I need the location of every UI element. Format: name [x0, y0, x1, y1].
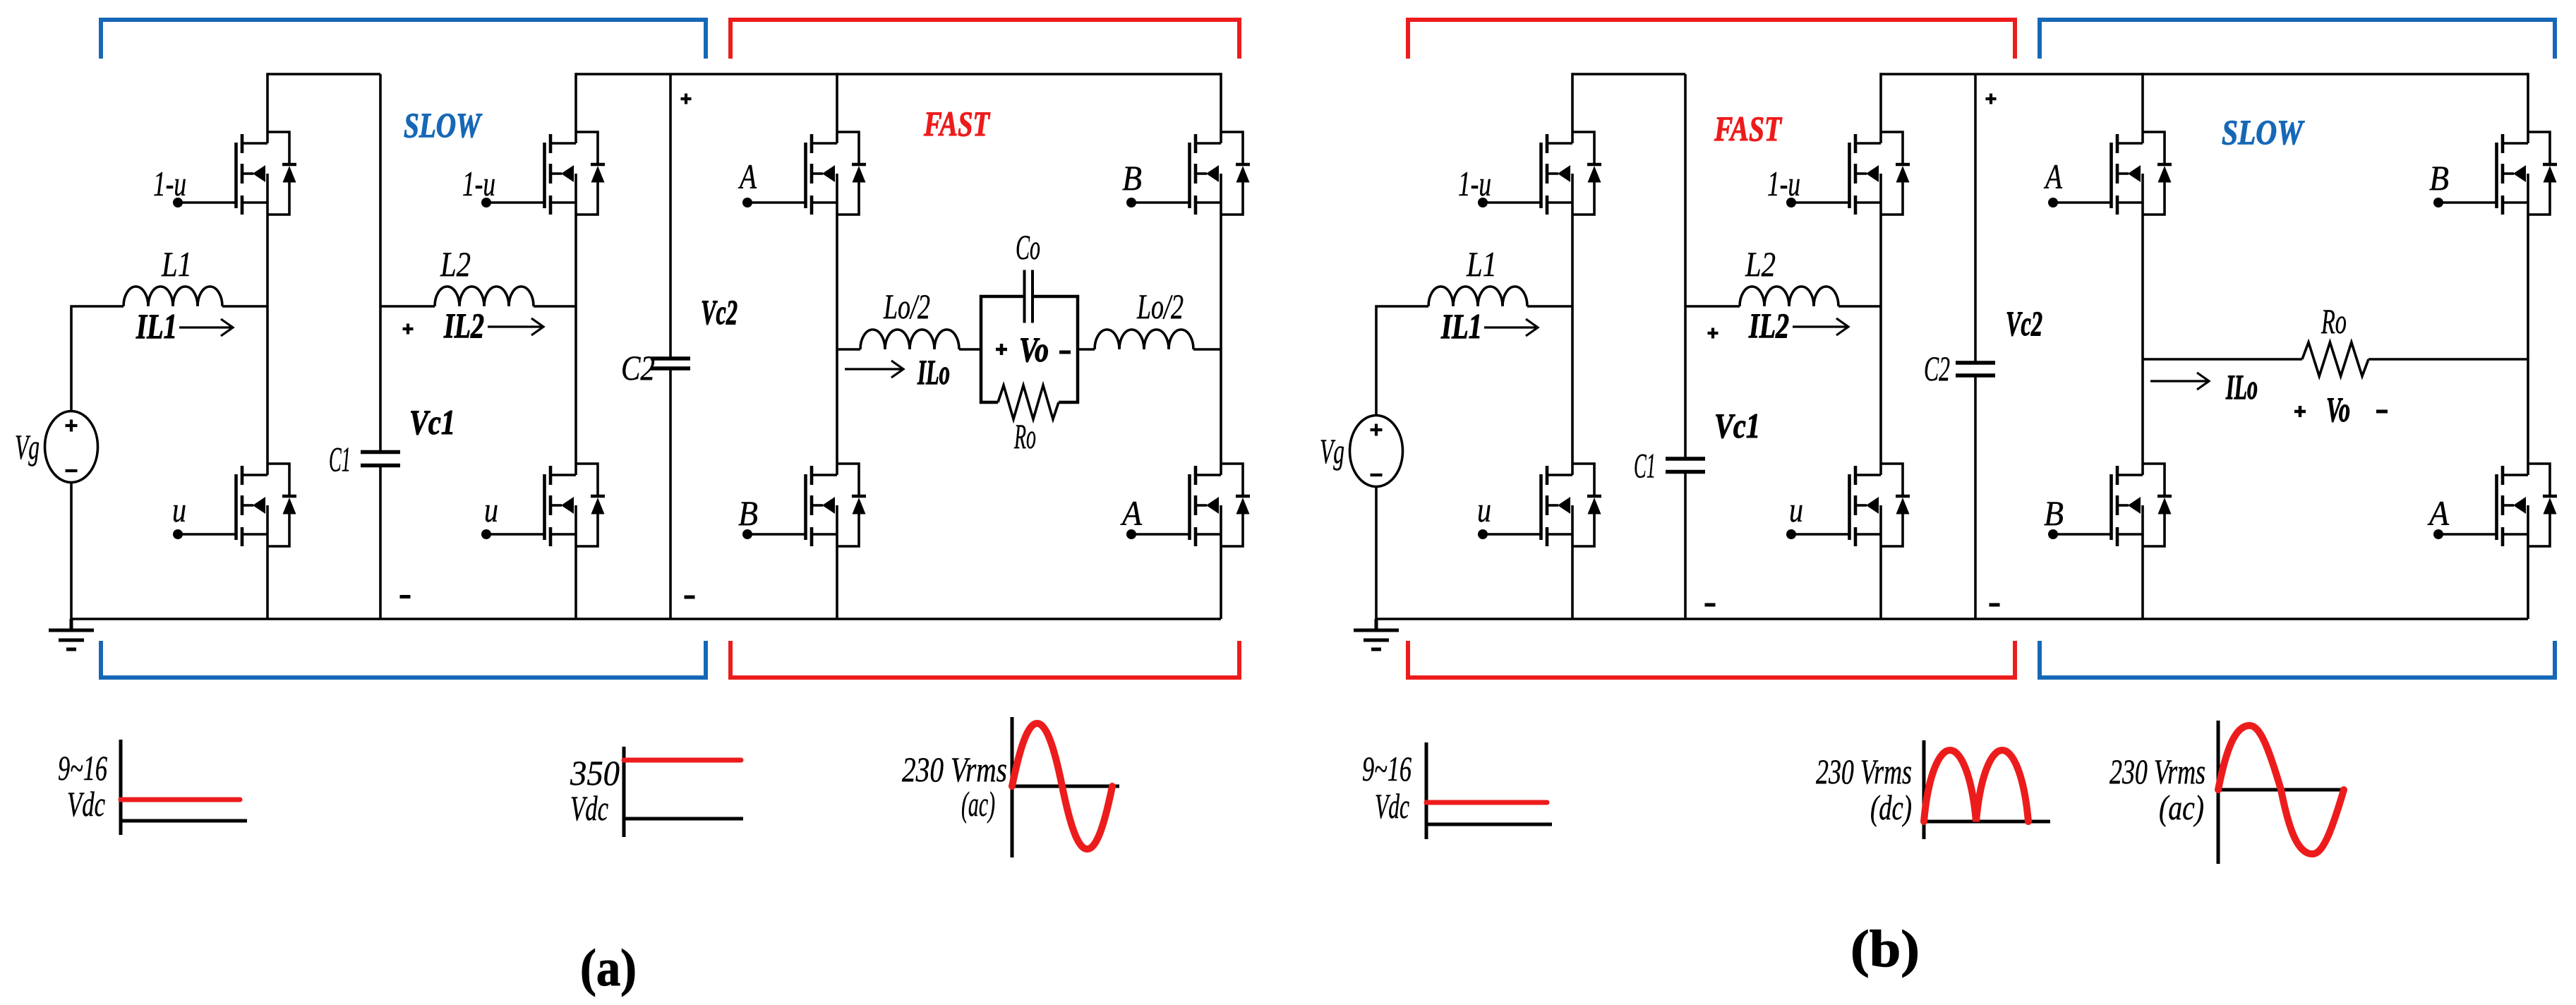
svg-text:Vdc: Vdc — [67, 784, 105, 824]
wire C2 branch bottom (b) — [1974, 378, 1977, 620]
svg-text:B: B — [2429, 158, 2449, 198]
svg-text:1-u: 1-u — [153, 164, 186, 203]
wire top rail A (a): leg1 to C1 — [267, 73, 380, 76]
polarity plus Vc1 (b) — [1708, 328, 1719, 339]
svg-text:Vc1: Vc1 — [1714, 406, 1760, 445]
wire L1 to leg1 (b) — [1527, 305, 1572, 308]
transistor S1 (1-u) fig b leg1 high-side — [1478, 132, 1601, 215]
waveform red rectified sine (b bus) — [1924, 750, 2028, 822]
wire leg1 mid (a) — [266, 215, 269, 464]
inductor Lo/2 right (a) — [1095, 330, 1193, 349]
transistor B fig b bridge right high-side — [2433, 132, 2557, 215]
polarity plus Vc1 (a) — [403, 324, 414, 335]
wire H-bridge left leg bottom (b) — [2141, 546, 2144, 619]
polarity plus Vo (b) — [2294, 406, 2306, 417]
wire H-bridge right leg bottom (b) — [2527, 546, 2529, 619]
svg-text:9~16: 9~16 — [1362, 749, 1412, 788]
svg-text:IL1: IL1 — [1440, 306, 1482, 346]
svg-text:Vdc: Vdc — [1375, 786, 1409, 826]
wire Ro to bridge right leg (b): node B — [2369, 358, 2528, 361]
polarity minus Vo (a) — [1059, 351, 1071, 354]
svg-text:L2: L2 — [440, 244, 471, 284]
current arrow ILo (a) — [845, 361, 903, 378]
waveform red dc line (a input) — [121, 798, 240, 802]
waveform axes 230Vrms ac (a) — [1012, 717, 1119, 857]
wire Vg to L1 (a) — [71, 306, 124, 411]
waveform red sine (a output) — [1012, 723, 1112, 849]
svg-text:Vdc: Vdc — [570, 788, 608, 828]
wire H-bridge right leg mid (b): node B — [2527, 215, 2529, 464]
svg-text:IL2: IL2 — [443, 306, 484, 345]
transistor S3 (1-u) fig b leg2 high-side — [1786, 132, 1910, 215]
polarity minus Vo (b) — [2376, 410, 2388, 414]
wire C2 branch top (a) — [669, 74, 672, 357]
svg-text:FAST: FAST — [1714, 109, 1783, 148]
wire bridge output left (b): node A to Ro — [2143, 358, 2302, 361]
transistor S1 (1-u) fig a leg1 high-side — [173, 132, 296, 215]
wire leg1 bottom (a) — [266, 546, 269, 619]
polarity plus Vo (a) — [996, 344, 1007, 355]
svg-text:A: A — [738, 157, 757, 196]
transistor S4 (u) fig b leg2 low-side — [1786, 464, 1910, 546]
svg-text:Lo/2: Lo/2 — [883, 287, 930, 326]
current arrow IL2 (a) — [488, 318, 543, 335]
polarity plus Vc2 (b) — [1986, 94, 1997, 104]
current arrow IL1 (a) — [179, 319, 233, 336]
wire leg1 bottom (b) — [1571, 546, 1574, 619]
wire leg1 top (b) — [1571, 73, 1574, 132]
svg-text:Vo: Vo — [1019, 330, 1049, 369]
capacitor C1 (b) — [1666, 457, 1705, 461]
svg-text:(ac): (ac) — [961, 784, 995, 824]
wire load box to right Lo/2 (a) — [1078, 348, 1095, 351]
svg-text:B: B — [2044, 493, 2064, 533]
current arrow ILo (b) — [2150, 373, 2209, 390]
polarity minus Vc2 (a) — [685, 596, 695, 599]
svg-text:1-u: 1-u — [1458, 164, 1491, 203]
wire leg2 bottom (a) — [574, 546, 577, 619]
wire L2 to leg2 (b) — [1838, 305, 1881, 308]
wire C2 branch bottom (a) — [669, 371, 672, 620]
wire Vg to L1 (b) — [1376, 306, 1428, 416]
svg-text:C2: C2 — [621, 348, 655, 387]
wire bottom rail (a) — [71, 618, 1221, 620]
transistor A fig b bridge right low-side — [2433, 464, 2557, 546]
capacitor C2 (a) — [651, 356, 690, 361]
polarity minus Vc1 (b) — [1705, 603, 1716, 607]
capacitor C1 (a) — [361, 450, 400, 455]
svg-text:Ro: Ro — [2321, 301, 2347, 341]
svg-text:(a): (a) — [580, 939, 637, 997]
wire Vg negative lead (a) — [70, 483, 73, 620]
transistor S2 (u) fig b leg1 low-side — [1478, 464, 1601, 546]
svg-text:230 Vrms: 230 Vrms — [1816, 752, 1912, 791]
wire H-bridge right leg bottom (a) — [1220, 546, 1222, 619]
current arrow IL1 (b) — [1484, 319, 1538, 336]
capacitor Co (a) — [1025, 270, 1033, 323]
svg-text:Co: Co — [1016, 227, 1040, 267]
wire leg2 top (b) — [1879, 73, 1882, 132]
resistor Ro (a) — [998, 385, 1059, 419]
svg-text:A: A — [2427, 493, 2449, 533]
inductor L1 (a) — [124, 287, 222, 306]
transistor S4 (u) fig a leg2 low-side — [481, 464, 605, 546]
wire H-bridge left leg bottom (a) — [836, 546, 838, 619]
wire Vg negative lead (b) — [1375, 487, 1378, 620]
wire H-bridge left leg top (a) — [836, 73, 838, 132]
wire leg1 top (a) — [266, 73, 269, 132]
wire C1 node to L2 (a) — [380, 305, 435, 308]
wire leg1 mid (b) — [1571, 215, 1574, 464]
ground (b) — [1354, 619, 1399, 649]
svg-text:u: u — [1789, 490, 1803, 529]
svg-text:230 Vrms: 230 Vrms — [2109, 752, 2205, 791]
svg-text:C1: C1 — [329, 440, 351, 479]
wire H-bridge right leg top (a) — [1220, 73, 1222, 132]
wire Lo/2 to load box (a) — [959, 348, 981, 351]
load box top-right wire (a) — [1034, 295, 1080, 299]
figure (b): red top bracket over FAST stage — [1408, 20, 2015, 59]
figure (b): blue bottom bracket — [2040, 641, 2555, 678]
svg-text:SLOW: SLOW — [404, 105, 483, 145]
inductor L2 (b) — [1740, 287, 1838, 306]
svg-text:Vg: Vg — [15, 427, 40, 467]
transistor B fig a bridge right high-side — [1126, 132, 1250, 215]
svg-text:B: B — [1122, 158, 1142, 198]
figure (b): blue top bracket over SLOW stage — [2040, 20, 2555, 59]
wire leg2 mid (a) — [574, 215, 577, 464]
svg-text:350: 350 — [570, 753, 620, 793]
svg-text:C2: C2 — [1924, 349, 1950, 388]
resistor Ro (b) — [2302, 342, 2369, 376]
wire bridge output left (a) — [837, 348, 860, 351]
svg-text:9~16: 9~16 — [58, 748, 107, 788]
wire C2 branch top (b) — [1974, 74, 1977, 361]
figure (b): red bottom bracket — [1408, 641, 2015, 678]
wire leg2 mid (b) — [1879, 215, 1882, 464]
load box top-left wire (a) — [980, 295, 1023, 299]
svg-text:Vc2: Vc2 — [2006, 303, 2042, 343]
wire top rail B (b): leg2 to H-bridge right leg — [1881, 73, 2528, 76]
wire top rail A (b): leg1 to C1 — [1572, 73, 1685, 76]
svg-text:A: A — [1120, 493, 1142, 533]
wire top rail B (a): leg2 to H-bridge right leg — [576, 73, 1221, 76]
svg-text:(b): (b) — [1850, 920, 1920, 978]
wire H-bridge left leg top (b) — [2141, 73, 2144, 132]
wire C1 branch top (b) — [1684, 74, 1687, 457]
svg-text:L1: L1 — [1466, 244, 1497, 284]
wire C1 branch bottom (b) — [1684, 474, 1687, 619]
svg-text:Ro: Ro — [1013, 416, 1036, 456]
wire C1 branch bottom (a) — [379, 467, 382, 619]
waveform axes 230Vrms dc (b) — [1924, 740, 2050, 839]
waveform axes 230Vrms ac (b) — [2218, 721, 2344, 864]
wire H-bridge left leg mid (a): node A — [836, 215, 838, 464]
svg-text:Vc2: Vc2 — [701, 292, 738, 332]
voltage source Vg (a) — [45, 411, 98, 483]
svg-text:u: u — [172, 490, 186, 529]
svg-text:(dc): (dc) — [1870, 788, 1912, 827]
waveform axes 350 Vdc (a) — [624, 747, 743, 837]
inductor L1 (b) — [1428, 287, 1527, 306]
figure (a): red top bracket over FAST stage — [730, 20, 1239, 59]
svg-text:IL2: IL2 — [1748, 306, 1789, 345]
svg-text:Vc1: Vc1 — [409, 402, 455, 442]
svg-text:ILo: ILo — [2225, 367, 2258, 407]
svg-text:SLOW: SLOW — [2222, 112, 2305, 152]
svg-text:u: u — [1477, 490, 1491, 529]
transistor B fig a bridge left low-side — [742, 464, 866, 546]
wire C1 branch top (a) — [379, 74, 382, 450]
svg-text:L1: L1 — [161, 244, 192, 284]
svg-text:A: A — [2044, 157, 2063, 196]
capacitor C2 (b) — [1956, 361, 1995, 365]
svg-text:u: u — [484, 490, 498, 529]
wire leg2 top (a) — [574, 73, 577, 132]
load box bottom-right wire (a) — [1059, 401, 1079, 404]
waveform red sine (b output) — [2218, 726, 2344, 854]
inductor Lo/2 left (a) — [860, 330, 959, 349]
transistor S3 (1-u) fig a leg2 high-side — [481, 132, 605, 215]
wire L2 to leg2 (a) — [534, 305, 576, 308]
svg-text:FAST: FAST — [923, 104, 991, 143]
inductor L2 (a) — [435, 287, 534, 306]
load box bottom-left wire (a) — [980, 401, 998, 404]
wire bottom rail (b) — [1376, 618, 2528, 620]
svg-text:Vo: Vo — [2326, 390, 2350, 429]
wire H-bridge right leg top (b) — [2527, 73, 2529, 132]
voltage source Vg (b) — [1350, 416, 1403, 487]
wire H-bridge left leg mid (b): node A — [2141, 215, 2144, 464]
wire C1 node to L2 (b) — [1685, 305, 1740, 308]
polarity minus Vc1 (a) — [400, 595, 411, 598]
transistor B fig b bridge left low-side — [2048, 464, 2172, 546]
waveform axes 9-16 Vdc (b) — [1426, 742, 1552, 839]
svg-text:1-u: 1-u — [462, 164, 495, 203]
wire leg2 bottom (b) — [1879, 546, 1882, 619]
transistor A fig b bridge left high-side — [2048, 132, 2172, 215]
polarity plus Vc2 (a) — [681, 94, 692, 104]
svg-text:1-u: 1-u — [1767, 164, 1800, 203]
svg-text:230 Vrms: 230 Vrms — [902, 750, 1007, 789]
svg-text:(ac): (ac) — [2159, 788, 2204, 827]
figure (a): blue bottom bracket — [101, 641, 706, 678]
polarity minus Vc2 (b) — [1990, 603, 2000, 607]
svg-text:C1: C1 — [1634, 446, 1656, 486]
wire H-bridge right leg mid (a): node B — [1220, 215, 1222, 464]
waveform axes 9-16 Vdc (a) — [121, 740, 247, 835]
waveform red dc line (a bus) — [624, 758, 741, 763]
load box right side (a) — [1076, 295, 1080, 404]
wire L1 to leg1 (a) — [222, 305, 267, 308]
current arrow IL2 (b) — [1793, 318, 1848, 335]
transistor S2 (u) fig a leg1 low-side — [173, 464, 296, 546]
svg-text:L2: L2 — [1745, 244, 1776, 284]
svg-text:IL1: IL1 — [136, 306, 177, 346]
svg-text:ILo: ILo — [917, 352, 950, 392]
figure (a): blue top bracket over SLOW stage — [101, 20, 706, 59]
svg-text:B: B — [738, 493, 758, 533]
svg-text:Lo/2: Lo/2 — [1136, 287, 1184, 326]
waveform red dc line (b input) — [1426, 800, 1547, 805]
wire Lo/2 to bridge right leg (a) — [1193, 348, 1221, 351]
transistor A fig a bridge right low-side — [1126, 464, 1250, 546]
transistor A fig a bridge left high-side — [742, 132, 866, 215]
ground (a) — [49, 619, 94, 649]
figure (a): red bottom bracket — [730, 641, 1239, 678]
svg-text:Vg: Vg — [1320, 431, 1344, 471]
load box left side (a) — [980, 295, 983, 404]
